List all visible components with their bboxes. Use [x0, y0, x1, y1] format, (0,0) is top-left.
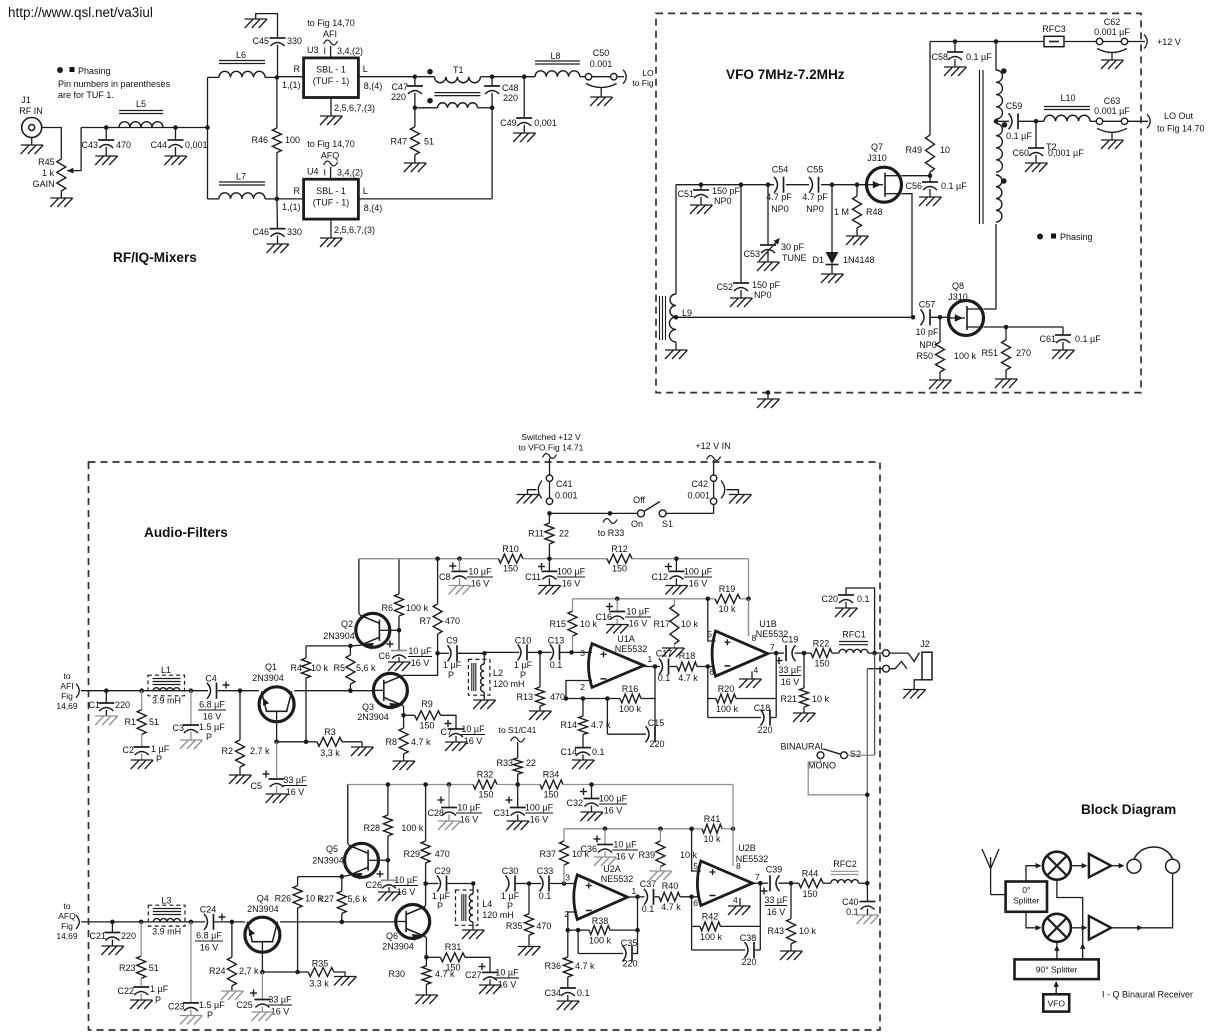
box 0 deg splitter	[1006, 882, 1047, 912]
ground U3	[320, 115, 342, 117]
svg-text:U1B: U1B	[759, 619, 777, 629]
dashed box Audio-Filters	[89, 462, 881, 1030]
svg-text:NP0: NP0	[714, 196, 732, 206]
wire C45 to node	[277, 45, 279, 77]
capacitor C35 220	[577, 930, 579, 953]
svg-text:C6: C6	[378, 651, 390, 661]
wire U4 ground pin	[330, 219, 332, 238]
wire U1A -input loop	[566, 681, 592, 699]
svg-text:Pin numbers in parentheses: Pin numbers in parentheses	[58, 79, 171, 89]
node LO output	[617, 76, 624, 78]
svg-text:J2: J2	[920, 639, 930, 649]
resistor R31 150	[426, 956, 440, 958]
wire U4 pin L	[358, 198, 492, 200]
ground C21	[101, 945, 123, 947]
wire U2A -input loop	[568, 912, 578, 930]
svg-text:to Fig: to Fig	[632, 78, 654, 88]
note phasing legend VFO	[1037, 234, 1043, 240]
svg-text:6: 6	[693, 898, 698, 908]
ground C20	[835, 607, 857, 609]
svg-text:1 µF: 1 µF	[432, 891, 451, 901]
ground C8	[449, 585, 471, 587]
svg-text:NE5532: NE5532	[601, 874, 634, 884]
svg-text:220: 220	[121, 931, 136, 941]
svg-text:D1: D1	[812, 255, 824, 265]
svg-text:100 µF: 100 µF	[525, 803, 554, 813]
svg-text:0.1: 0.1	[592, 747, 605, 757]
svg-text:U2A: U2A	[603, 864, 621, 874]
amplifier A1	[1089, 854, 1111, 877]
svg-text:C11: C11	[525, 572, 541, 582]
svg-text:1 µF: 1 µF	[501, 891, 520, 901]
svg-text:to VFO Fig 14.71: to VFO Fig 14.71	[519, 443, 584, 453]
antenna	[990, 869, 992, 895]
resistor R2 2.7k	[239, 691, 241, 740]
svg-text:C15: C15	[648, 718, 665, 728]
svg-text:TUNE: TUNE	[782, 253, 807, 263]
svg-text:U4: U4	[307, 167, 319, 177]
svg-text:100 k: 100 k	[716, 704, 739, 714]
svg-text:6.8 µF: 6.8 µF	[199, 700, 225, 710]
svg-text:C26: C26	[365, 880, 382, 890]
resistor R11 22	[548, 513, 550, 523]
ground C25	[251, 1011, 273, 1013]
svg-text:C10: C10	[515, 636, 532, 646]
svg-text:R14: R14	[560, 720, 577, 730]
wire oscillator feedback	[676, 316, 913, 318]
svg-text:4.7 k: 4.7 k	[435, 969, 455, 979]
switch S1	[550, 512, 638, 514]
ground C28	[438, 820, 460, 822]
svg-text:16 V: 16 V	[286, 787, 305, 797]
wire +12V switched rail	[359, 558, 498, 560]
svg-text:C50: C50	[593, 48, 610, 58]
svg-text:T1: T1	[453, 65, 464, 75]
svg-text:16 V: 16 V	[464, 736, 483, 746]
wire inverting row 2	[568, 929, 589, 931]
wire R26 top	[298, 876, 342, 878]
capacitor C58 0.1uF	[954, 42, 956, 53]
svg-text:NP0: NP0	[754, 290, 772, 300]
wire main RF line	[81, 127, 207, 129]
wire gate bus	[676, 184, 774, 186]
svg-text:R37: R37	[539, 849, 556, 859]
capacitor C29 1uF P	[437, 876, 441, 892]
svg-text:R30: R30	[388, 969, 405, 979]
svg-text:0,001 µF: 0,001 µF	[1048, 148, 1084, 158]
mixer M1	[1043, 852, 1071, 880]
resistor R47 51	[414, 108, 416, 127]
capacitor C34 0.1	[560, 987, 576, 989]
svg-text:C12: C12	[651, 572, 668, 582]
wire Q2 emitter node	[350, 644, 360, 647]
capacitor C11 100uF	[548, 559, 550, 572]
svg-text:NP0: NP0	[919, 340, 937, 350]
svg-text:P: P	[448, 670, 454, 680]
capacitor C3 1.5uF P	[190, 691, 192, 725]
svg-text:R42: R42	[702, 912, 719, 922]
headphones	[1127, 859, 1141, 873]
svg-text:0.1: 0.1	[539, 891, 552, 901]
svg-text:GAIN: GAIN	[33, 179, 55, 189]
capacitor C48 220	[490, 74, 495, 79]
svg-text:0.1: 0.1	[857, 594, 870, 604]
svg-text:120 mH: 120 mH	[482, 910, 514, 920]
svg-text:5,6 k: 5,6 k	[348, 894, 368, 904]
svg-text:220: 220	[757, 725, 772, 735]
ground C50	[590, 96, 612, 98]
svg-text:SBL - 1: SBL - 1	[316, 65, 346, 75]
wire Q2 base	[390, 629, 399, 631]
svg-text:220: 220	[622, 959, 637, 969]
wire U2B pin4 ground	[739, 898, 741, 906]
ground C44	[165, 155, 187, 157]
ground R50	[929, 379, 951, 381]
svg-text:are for TUF 1.: are for TUF 1.	[58, 90, 114, 100]
wire U3 pin L	[358, 76, 415, 78]
ground C41	[517, 494, 539, 496]
capacitor C5 33uF	[276, 742, 278, 779]
svg-text:1 M: 1 M	[834, 207, 849, 217]
wire U1B +input	[708, 599, 716, 641]
ground R8	[393, 760, 415, 762]
svg-text:R28: R28	[363, 823, 380, 833]
svg-text:0.001 µF: 0.001 µF	[1094, 106, 1130, 116]
potentiometer R45 1k GAIN	[57, 159, 66, 191]
svg-text:220: 220	[391, 92, 406, 102]
capacitor C43 470	[105, 128, 107, 141]
resistor R49 10	[929, 42, 931, 136]
svg-text:R5: R5	[333, 663, 345, 673]
inductor L3 3.9mH	[148, 905, 185, 926]
svg-text:C31: C31	[493, 808, 510, 818]
ground C40	[857, 914, 879, 916]
ground C1	[95, 715, 117, 717]
resistor R5 5.6k	[349, 646, 351, 655]
wire Q5 collector	[348, 785, 349, 846]
svg-text:1 k: 1 k	[42, 168, 55, 178]
capacitor C57 10pF NP0	[921, 309, 925, 325]
svg-text:150: 150	[802, 889, 817, 899]
svg-text:C22: C22	[117, 986, 134, 996]
svg-text:C32: C32	[566, 798, 583, 808]
capacitor C44 0.001	[175, 128, 177, 141]
svg-text:10 µF: 10 µF	[394, 875, 418, 885]
wire U1B pin4 ground	[751, 672, 753, 680]
svg-text:to: to	[63, 671, 70, 681]
svg-text:14,69: 14,69	[56, 701, 78, 711]
svg-text:On: On	[631, 519, 643, 529]
svg-text:100 k: 100 k	[589, 936, 612, 946]
svg-text:RFC2: RFC2	[833, 859, 857, 869]
svg-text:+12 V IN: +12 V IN	[695, 441, 730, 451]
svg-text:51: 51	[149, 717, 159, 727]
svg-text:C43: C43	[81, 140, 98, 150]
svg-text:100: 100	[285, 135, 300, 145]
resistor R36 4.7k	[567, 930, 569, 957]
ground R3	[351, 746, 373, 748]
svg-text:2: 2	[564, 909, 569, 919]
svg-text:SBL - 1: SBL - 1	[316, 186, 346, 196]
ground C56	[919, 196, 941, 198]
svg-text:J310: J310	[867, 153, 887, 163]
svg-text:C59: C59	[1006, 101, 1023, 111]
svg-text:2N3904: 2N3904	[312, 856, 344, 866]
ground C63	[1101, 139, 1123, 141]
svg-text:100 k: 100 k	[700, 932, 723, 942]
svg-text:VFO: VFO	[1047, 999, 1065, 1009]
svg-text:R32: R32	[477, 770, 494, 780]
svg-text:Q8: Q8	[952, 281, 964, 291]
svg-text:L4: L4	[482, 899, 492, 909]
svg-text:C7: C7	[440, 727, 452, 737]
svg-text:C2: C2	[122, 745, 134, 755]
svg-text:P: P	[206, 732, 212, 742]
ground U4	[320, 237, 342, 239]
inductor L4 120mH	[456, 890, 478, 925]
capacitor C22 1uF P	[140, 978, 142, 987]
wire Q5 emitter	[342, 875, 349, 876]
svg-text:+12 V: +12 V	[1157, 37, 1181, 47]
svg-text:C39: C39	[766, 865, 783, 875]
svg-text:L7: L7	[236, 172, 246, 182]
wire R4 top	[306, 645, 350, 647]
svg-text:1,(1): 1,(1)	[282, 202, 301, 212]
wire Q8 drain to T2	[984, 224, 997, 309]
svg-text:0.1 µF: 0.1 µF	[1075, 334, 1101, 344]
node to R33	[603, 519, 617, 524]
svg-text:330: 330	[287, 227, 302, 237]
svg-text:L10: L10	[1060, 93, 1075, 103]
svg-text:2,5,6,7,(3): 2,5,6,7,(3)	[334, 225, 375, 235]
ground C23	[180, 1015, 202, 1017]
ground C42	[729, 494, 751, 496]
svg-text:16 V: 16 V	[604, 806, 623, 816]
svg-text:2,5,6,7,(3): 2,5,6,7,(3)	[334, 103, 375, 113]
svg-text:14,69: 14,69	[56, 931, 78, 941]
svg-text:R45: R45	[38, 157, 55, 167]
svg-text:C48: C48	[502, 83, 519, 93]
svg-text:to Fig 14.70: to Fig 14.70	[1157, 124, 1205, 134]
svg-text:0.001 µF: 0.001 µF	[1094, 27, 1130, 37]
svg-text:3,4,(2): 3,4,(2)	[337, 168, 363, 178]
resistor R12 150	[607, 554, 632, 563]
wire U2B output	[753, 882, 769, 884]
svg-text:C19: C19	[782, 635, 799, 645]
amplifier A2	[1089, 916, 1111, 940]
svg-text:Q7: Q7	[871, 142, 883, 152]
svg-text:R35: R35	[506, 921, 523, 931]
resistor R3 3.3k	[307, 741, 317, 743]
svg-text:AFI: AFI	[323, 29, 337, 39]
svg-text:R41: R41	[704, 814, 721, 824]
wire Q3 collector	[403, 653, 438, 675]
svg-text:10 k: 10 k	[799, 926, 817, 936]
capacitor C12 100uF	[675, 559, 677, 572]
svg-text:C45: C45	[252, 36, 269, 46]
capacitor C2 1uF P	[141, 735, 143, 748]
wire J1 to R45	[42, 128, 62, 160]
capacitor C8 10uF	[459, 559, 461, 572]
svg-text:C44: C44	[150, 140, 167, 150]
svg-text:L5: L5	[136, 99, 146, 109]
svg-text:P: P	[156, 754, 162, 764]
svg-text:C13: C13	[548, 636, 565, 646]
svg-text:R1: R1	[124, 717, 136, 727]
svg-text:Block Diagram: Block Diagram	[1081, 802, 1176, 817]
capacitor C7 10uF	[441, 715, 457, 729]
svg-text:3.9 mH: 3.9 mH	[152, 696, 181, 706]
svg-text:4.7 k: 4.7 k	[411, 737, 431, 747]
inductor L6	[208, 76, 220, 78]
svg-text:1 µF: 1 µF	[514, 660, 533, 670]
svg-text:33 µF: 33 µF	[778, 665, 802, 675]
svg-text:C57: C57	[919, 300, 936, 310]
resistor R10 150	[498, 554, 523, 563]
capacitor C51 150pF NP0	[700, 185, 702, 190]
svg-text:3.3 k: 3.3 k	[309, 979, 329, 989]
svg-text:16 V: 16 V	[411, 658, 430, 668]
resistor R13 470	[539, 652, 541, 687]
ground R39	[649, 870, 671, 872]
resistor R26 10k	[297, 877, 299, 886]
ground R45	[50, 197, 72, 199]
capacitor C36 10uF	[604, 829, 606, 844]
capacitor C39 33uF	[769, 875, 771, 891]
resistor R28 100k	[387, 785, 389, 816]
capacitor C60 0.001uF	[1035, 121, 1037, 148]
capacitor C31 100uF	[517, 785, 519, 808]
svg-text:R29: R29	[403, 849, 420, 859]
resistor R50 100k	[939, 317, 941, 342]
svg-text:C3: C3	[172, 723, 184, 733]
svg-text:Fig: Fig	[61, 921, 73, 931]
capacitor C49 0.001	[523, 77, 525, 118]
inductor L7	[208, 198, 220, 200]
capacitor C4 6.8uF	[207, 683, 211, 699]
svg-text:S2: S2	[850, 749, 861, 759]
svg-text:2: 2	[580, 682, 585, 692]
svg-text:I - Q Binaural Receiver: I - Q Binaural Receiver	[1102, 990, 1193, 1000]
svg-text:150: 150	[814, 659, 829, 669]
svg-text:8: 8	[752, 633, 757, 643]
svg-text:R34: R34	[543, 770, 560, 780]
svg-text:16 V: 16 V	[460, 815, 479, 825]
capacitor C14 0.1	[575, 747, 591, 749]
resistor R19 10k	[715, 594, 740, 603]
svg-text:10 µF: 10 µF	[626, 607, 650, 617]
resistor R27 5.6k	[341, 877, 343, 891]
svg-text:C16: C16	[595, 612, 612, 622]
capacitor C24 6.8uF	[204, 914, 208, 930]
svg-text:R27: R27	[317, 894, 334, 904]
box 90 deg splitter	[1015, 959, 1099, 979]
svg-text:(TUF - 1): (TUF - 1)	[313, 76, 350, 86]
svg-text:R4: R4	[290, 663, 302, 673]
svg-text:470: 470	[536, 921, 551, 931]
dashed box VFO	[656, 13, 1141, 392]
svg-text:I: I	[323, 46, 326, 56]
capacitor C10 1uF P	[518, 644, 522, 660]
svg-text:R26: R26	[275, 894, 292, 904]
ground C43	[95, 155, 117, 157]
resistor R37 10k	[563, 829, 565, 841]
capacitor C28 10uF	[448, 785, 450, 808]
svg-text:C52: C52	[716, 282, 733, 292]
svg-text:RF/IQ-Mixers: RF/IQ-Mixers	[113, 250, 197, 265]
svg-text:Phasing: Phasing	[78, 66, 111, 76]
resistor R20 100k loop	[707, 667, 709, 718]
mixer M2	[1043, 914, 1071, 942]
svg-text:C34: C34	[544, 988, 561, 998]
svg-text:R47: R47	[390, 137, 407, 147]
resistor R40 4.7k	[659, 892, 680, 901]
capacitor C54 4.7pF NP0	[774, 177, 778, 193]
resistor R30 4.7k	[425, 957, 427, 966]
wire U3 pin R	[277, 76, 304, 78]
ground C34	[557, 1000, 579, 1002]
svg-text:Q3: Q3	[362, 702, 374, 712]
svg-text:150 pF: 150 pF	[712, 186, 741, 196]
svg-text:3: 3	[565, 873, 570, 883]
svg-text:R: R	[294, 186, 301, 196]
wire input I line	[81, 690, 208, 692]
capacitor C9 1uF P	[448, 645, 452, 661]
capacitor C16 10uF	[616, 599, 618, 612]
wire mixer1 to amp1	[1071, 865, 1082, 867]
feedthrough capacitor C63 0.001uF	[1090, 120, 1096, 122]
svg-text:270: 270	[1016, 348, 1031, 358]
svg-text:C41: C41	[556, 479, 573, 489]
capacitor C38 220	[692, 949, 745, 951]
svg-text:2N3904: 2N3904	[247, 904, 279, 914]
svg-text:R15: R15	[549, 619, 566, 629]
svg-text:C53: C53	[743, 249, 760, 259]
svg-text:1.5 µF: 1.5 µF	[199, 722, 225, 732]
svg-text:2N3904: 2N3904	[252, 673, 284, 683]
ground C22	[130, 999, 152, 1001]
wire LO path 1	[1057, 880, 1083, 960]
svg-text:16 V: 16 V	[471, 579, 490, 589]
svg-text:100 µF: 100 µF	[557, 567, 586, 577]
svg-text:8,(4): 8,(4)	[364, 203, 383, 213]
svg-text:C55: C55	[807, 165, 824, 175]
wire VFO to splitter	[1055, 982, 1057, 994]
wire Q7 source	[902, 194, 913, 318]
svg-text:0,001: 0,001	[534, 118, 557, 128]
svg-text:C17: C17	[656, 649, 673, 659]
svg-text:16 V: 16 V	[767, 907, 786, 917]
ground C58	[944, 66, 966, 68]
wire pin8 riser U2B	[732, 785, 734, 867]
capacitor C47 220	[413, 74, 418, 79]
capacitor C23 1.5uF P	[190, 922, 192, 1003]
svg-text:2,7 k: 2,7 k	[239, 966, 259, 976]
wire input Q line	[81, 921, 205, 923]
ground C16	[606, 624, 628, 626]
ground C32	[581, 811, 603, 813]
wire Q4 emitter row	[262, 971, 308, 973]
ground C53	[757, 261, 779, 263]
diode D1 1N4148	[831, 185, 833, 252]
svg-text:4.7 k: 4.7 k	[678, 673, 698, 683]
svg-text:100 k: 100 k	[619, 704, 642, 714]
ground C6	[388, 661, 410, 663]
capacitor C20 0.1	[846, 588, 875, 653]
svg-text:100 µF: 100 µF	[599, 794, 628, 804]
svg-text:Q6: Q6	[386, 931, 398, 941]
svg-text:R46: R46	[251, 135, 268, 145]
